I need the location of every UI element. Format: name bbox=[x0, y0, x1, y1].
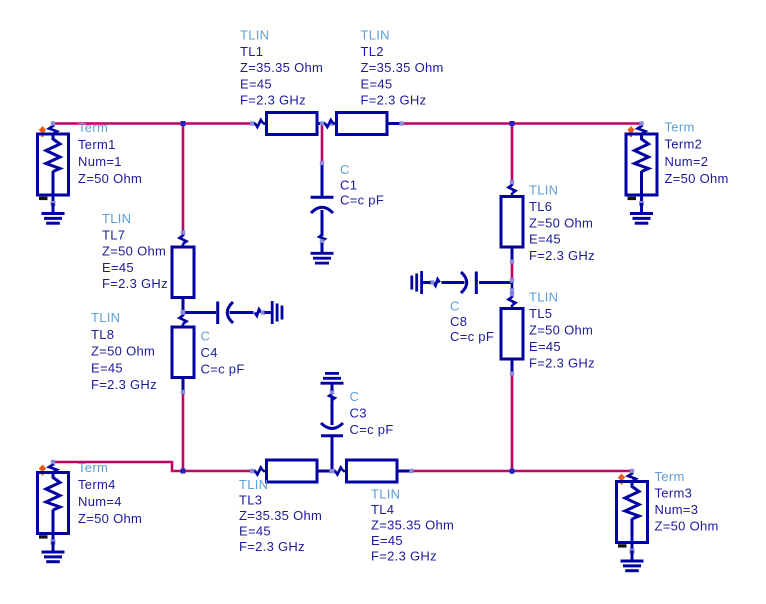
svg-text:C: C bbox=[340, 162, 350, 177]
capacitor C4 bbox=[181, 302, 265, 325]
svg-text:TL5: TL5 bbox=[529, 306, 552, 321]
svg-text:F=2.3 GHz: F=2.3 GHz bbox=[371, 549, 437, 564]
label: TL3 designator and values bbox=[239, 477, 322, 554]
svg-text:TL6: TL6 bbox=[529, 199, 552, 214]
svg-text:TL2: TL2 bbox=[361, 44, 384, 59]
svg-text:C1: C1 bbox=[340, 177, 357, 192]
label: Term3 designator and values bbox=[655, 469, 719, 534]
svg-text:TLIN: TLIN bbox=[529, 290, 558, 305]
transmission line TL3 bbox=[250, 460, 334, 482]
wire: TL4 output to Term3 (bottom-right net) bbox=[412, 470, 633, 473]
svg-text:F=2.3 GHz: F=2.3 GHz bbox=[529, 356, 595, 371]
svg-text:C: C bbox=[201, 329, 211, 344]
label: TL1 designator and values bbox=[240, 28, 323, 108]
svg-text:Num=3: Num=3 bbox=[655, 502, 699, 517]
svg-text:E=45: E=45 bbox=[91, 360, 123, 375]
capacitor C1 bbox=[311, 161, 334, 244]
svg-text:TL7: TL7 bbox=[102, 227, 125, 242]
svg-text:F=2.3 GHz: F=2.3 GHz bbox=[239, 539, 305, 554]
label: TL5 designator and values bbox=[529, 290, 595, 371]
svg-text:F=2.3 GHz: F=2.3 GHz bbox=[91, 377, 157, 392]
svg-text:C: C bbox=[450, 299, 460, 314]
wire: top-left junction down to TL7 pin1 bbox=[182, 124, 185, 232]
wire: Term1 to TL1 input (top-left net) bbox=[53, 122, 252, 125]
junction: bottom-right branch node bbox=[509, 468, 515, 474]
svg-text:F=2.3 GHz: F=2.3 GHz bbox=[361, 93, 427, 108]
terminator Term1 bbox=[38, 121, 69, 206]
svg-text:Term4: Term4 bbox=[78, 477, 116, 492]
ground (C3) bbox=[321, 373, 344, 390]
svg-text:Z=50 Ohm: Z=50 Ohm bbox=[78, 511, 142, 526]
svg-text:Z=50 Ohm: Z=50 Ohm bbox=[529, 323, 593, 338]
svg-text:Z=50 Ohm: Z=50 Ohm bbox=[529, 215, 593, 230]
ground (C1) bbox=[311, 243, 334, 263]
svg-text:E=45: E=45 bbox=[361, 76, 393, 91]
ground (C8) bbox=[412, 271, 431, 294]
svg-text:Z=35.35 Ohm: Z=35.35 Ohm bbox=[371, 518, 454, 533]
svg-text:TLIN: TLIN bbox=[529, 183, 558, 198]
label: C3 designator and value bbox=[350, 389, 394, 437]
svg-text:E=45: E=45 bbox=[102, 260, 134, 275]
svg-text:Z=35.35 Ohm: Z=35.35 Ohm bbox=[240, 60, 323, 75]
wire: TL6 pin2 to C8/TL5 node bbox=[511, 262, 514, 281]
svg-text:TLIN: TLIN bbox=[239, 477, 268, 492]
svg-text:Num=4: Num=4 bbox=[78, 494, 122, 509]
capacitor C3 bbox=[321, 390, 343, 473]
label: TL4 designator and values bbox=[371, 487, 454, 564]
svg-text:Term: Term bbox=[655, 469, 685, 484]
svg-text:F=2.3 GHz: F=2.3 GHz bbox=[240, 93, 306, 108]
svg-text:Term1: Term1 bbox=[78, 137, 116, 152]
svg-text:C4: C4 bbox=[201, 345, 218, 360]
svg-text:E=45: E=45 bbox=[371, 533, 403, 548]
transmission line TL7 bbox=[172, 230, 194, 314]
svg-text:Z=50 Ohm: Z=50 Ohm bbox=[91, 344, 155, 359]
label: TL7 designator and values bbox=[102, 211, 168, 291]
svg-text:Z=50 Ohm: Z=50 Ohm bbox=[102, 244, 166, 259]
label: C1 designator and value bbox=[340, 162, 384, 208]
wire: TL5 pin2 down to bottom-right junction bbox=[511, 374, 514, 472]
ground (Term3) bbox=[621, 551, 644, 571]
terminator Term3 bbox=[617, 469, 648, 554]
svg-text:E=45: E=45 bbox=[529, 339, 561, 354]
label: C8 designator and value bbox=[450, 299, 494, 345]
svg-text:C3: C3 bbox=[350, 406, 367, 421]
label: Term1 designator and values bbox=[78, 120, 142, 186]
svg-text:TL1: TL1 bbox=[240, 44, 263, 59]
wire: top-right junction down to TL6 pin1 bbox=[511, 124, 514, 182]
svg-text:Z=35.35 Ohm: Z=35.35 Ohm bbox=[239, 508, 322, 523]
wire: TL1/TL2 node down to C1 pin1 bbox=[321, 124, 324, 163]
svg-text:Num=2: Num=2 bbox=[665, 154, 709, 169]
svg-text:C=c pF: C=c pF bbox=[340, 193, 384, 208]
junction: top-right branch node bbox=[510, 121, 515, 126]
svg-text:Z=50 Ohm: Z=50 Ohm bbox=[78, 171, 142, 186]
transmission line TL5 bbox=[501, 292, 523, 376]
transmission line TL8 bbox=[172, 310, 194, 394]
label: Term2 designator and values bbox=[665, 120, 729, 187]
svg-text:TLIN: TLIN bbox=[91, 310, 120, 325]
terminator Term4 bbox=[38, 460, 69, 545]
label: TL6 designator and values bbox=[529, 183, 595, 264]
wire: TL8 pin2 down to bottom-left junction bbox=[182, 392, 185, 471]
svg-text:E=45: E=45 bbox=[529, 232, 561, 247]
svg-text:Term: Term bbox=[665, 120, 695, 135]
capacitor C8 bbox=[430, 272, 511, 295]
svg-text:C=c pF: C=c pF bbox=[350, 422, 394, 437]
svg-text:Term2: Term2 bbox=[665, 137, 703, 152]
svg-text:Z=50 Ohm: Z=50 Ohm bbox=[665, 171, 729, 186]
svg-text:E=45: E=45 bbox=[239, 524, 271, 539]
svg-text:TL3: TL3 bbox=[239, 493, 262, 508]
svg-text:C=c pF: C=c pF bbox=[450, 329, 494, 344]
label: TL8 designator and values bbox=[91, 310, 157, 392]
svg-text:Term: Term bbox=[78, 120, 108, 135]
svg-text:Num=1: Num=1 bbox=[78, 154, 122, 169]
transmission line TL1 bbox=[250, 113, 334, 135]
transmission line TL4 bbox=[330, 460, 414, 482]
svg-text:Z=35.35 Ohm: Z=35.35 Ohm bbox=[361, 60, 444, 75]
svg-text:C=c pF: C=c pF bbox=[201, 362, 245, 377]
wire: TL2 output to Term2 (top-right net) bbox=[402, 122, 642, 125]
svg-text:Term: Term bbox=[78, 460, 108, 475]
terminator Term2 bbox=[626, 121, 657, 206]
ground (Term4) bbox=[42, 542, 65, 562]
label: C4 designator and value bbox=[201, 329, 245, 377]
ground (C4) bbox=[265, 301, 283, 324]
junction: top-left branch node bbox=[181, 121, 186, 126]
svg-text:Term3: Term3 bbox=[655, 486, 693, 501]
transmission line TL2 bbox=[320, 113, 404, 135]
svg-text:TL4: TL4 bbox=[371, 502, 394, 517]
label: Term4 designator and values bbox=[78, 460, 142, 526]
svg-text:Z=50 Ohm: Z=50 Ohm bbox=[655, 519, 719, 534]
label: TL2 designator and values bbox=[361, 28, 444, 108]
junction: bottom-left branch node bbox=[181, 469, 186, 474]
svg-text:TLIN: TLIN bbox=[361, 28, 390, 43]
svg-text:E=45: E=45 bbox=[240, 76, 272, 91]
svg-text:F=2.3 GHz: F=2.3 GHz bbox=[102, 276, 168, 291]
svg-text:TLIN: TLIN bbox=[240, 28, 269, 43]
svg-text:TL8: TL8 bbox=[91, 327, 114, 342]
node: TL6/C8/TL5 connection bbox=[510, 278, 514, 293]
ground (Term2) bbox=[630, 203, 653, 223]
ground (Term1) bbox=[42, 203, 65, 223]
svg-text:TLIN: TLIN bbox=[102, 211, 131, 226]
transmission line TL6 bbox=[501, 180, 523, 264]
svg-text:C: C bbox=[350, 389, 360, 404]
svg-text:F=2.3 GHz: F=2.3 GHz bbox=[529, 248, 595, 263]
svg-text:C8: C8 bbox=[450, 314, 467, 329]
wire: Term4 to bottom row with jog bbox=[53, 462, 252, 471]
svg-text:TLIN: TLIN bbox=[371, 487, 400, 502]
